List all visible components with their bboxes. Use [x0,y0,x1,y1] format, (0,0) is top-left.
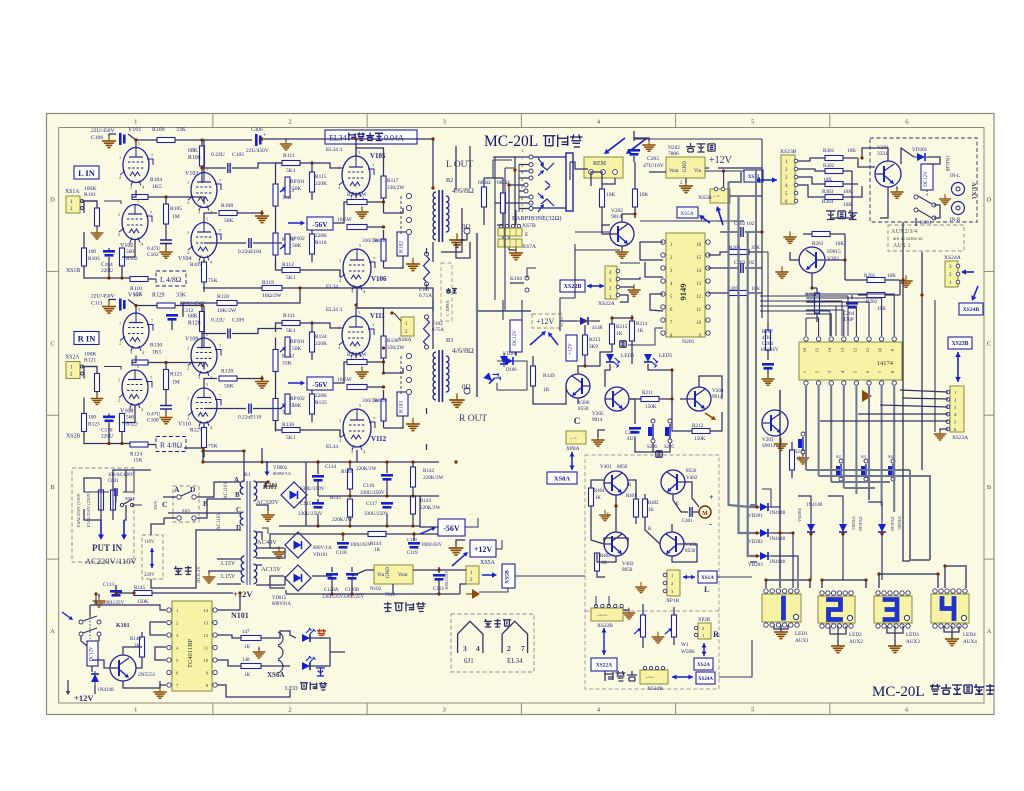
svg-text:S206: S206 [647,445,657,450]
label R IN box [74,332,99,345]
svg-text:R129: R129 [152,293,165,299]
transistor V205 9014 [592,387,629,423]
diode VD106 [500,353,517,373]
resistor R124 [130,442,156,464]
label LED bicolor [285,682,327,692]
svg-text:13: 13 [696,282,701,287]
svg-text:B3: B3 [446,337,453,344]
svg-text:R207: R207 [762,330,773,335]
ground main amp [449,540,465,555]
svg-text:10K: 10K [843,189,852,195]
svg-text:VD204: VD204 [797,508,802,522]
svg-text:2: 2 [187,200,189,205]
tube V112 EL34 [326,403,387,454]
connector XS23 right edge [744,170,763,182]
svg-text:S601: S601 [125,496,135,501]
wires V10x plate rails [104,138,204,258]
svg-text:220V: 220V [144,573,155,578]
potentiometer RP101 [280,177,305,197]
svg-text:VD101: VD101 [313,553,328,558]
svg-text:XS7A: XS7A [522,244,536,250]
svg-text:R106: R106 [188,155,201,161]
svg-text:K101: K101 [264,483,278,489]
ground input mid2 [775,266,788,278]
speaker terminals [401,353,412,396]
ground under 7806 [679,178,693,193]
svg-text:XS22B: XS22B [564,284,582,290]
tube outline 6J1 pins [458,621,483,665]
svg-text:C109: C109 [232,318,244,324]
earphone jack bracket [533,153,573,211]
capacitor C109 [202,318,282,339]
resistor R130 [132,343,162,366]
svg-text:2: 2 [187,366,189,371]
svg-text:AUX1: AUX1 [795,638,809,644]
connector XS5A arrow [677,206,723,225]
wire cathode bus [84,201,135,280]
svg-text:0Ω: 0Ω [462,383,471,391]
resistor R115 [310,163,328,200]
svg-text:R 4/8Ω: R 4/8Ω [160,441,182,450]
capacitor C601 [108,473,134,496]
resistor R116 [310,228,328,262]
svg-text:1K5: 1K5 [152,184,162,190]
ground between 10/5W [355,206,368,218]
svg-text:5: 5 [206,382,208,387]
resistor R117 [381,165,405,213]
svg-text:R142: R142 [423,468,435,474]
brown connector arrow [862,390,872,402]
svg-text:XS6A: XS6A [267,671,285,679]
svg-text:S9014: S9014 [762,443,776,449]
svg-text:LED5: LED5 [659,353,672,359]
switch S203 [861,454,868,481]
svg-text:7: 7 [521,644,525,653]
svg-text:V101: V101 [128,127,141,133]
svg-text:EL34 3: EL34 3 [326,147,342,153]
label dengsi [174,566,192,575]
jack AUX1 IN-R [950,202,965,224]
svg-text:+12V: +12V [709,155,733,166]
connector XS24A vol [696,672,715,684]
LED display digit 2 [818,591,855,628]
ground under digit 4 [945,633,959,646]
svg-text:0.04A: 0.04A [384,134,404,143]
svg-text:1: 1 [339,418,341,423]
svg-text:R121: R121 [84,358,96,364]
svg-text:5: 5 [138,307,140,312]
resistor R209 [708,286,762,296]
svg-text:7: 7 [219,394,221,399]
resistor R211 [629,390,672,410]
capacitor C205 electrolytic [628,149,664,169]
svg-text:R304: R304 [822,199,834,205]
svg-text:AUX1: AUX1 [970,182,977,199]
svg-text:5: 5 [138,142,140,147]
wire long vertical 433 R [432,299,434,349]
tube V104 6J1 [178,217,221,265]
IC 14174 bottom pins [802,370,896,385]
capacitor C120A [322,567,344,600]
svg-text:DC12V: DC12V [513,330,518,346]
svg-text:4: 4 [476,644,480,653]
svg-text:5: 5 [359,403,361,408]
resistor R210 [790,442,806,478]
svg-text:R214: R214 [636,321,648,327]
capacitor C117 [364,501,393,517]
connector XS5A bottom [466,560,496,584]
resistor R112 [276,262,301,281]
wires output stage [300,308,427,450]
svg-text:RP101: RP101 [290,339,305,345]
resistor R403 [595,553,611,571]
svg-text:1N4148: 1N4148 [944,155,949,172]
resistor R110 [130,277,156,299]
svg-text:XS2A: XS2A [697,662,710,668]
svg-text:GND: GND [683,161,688,172]
ground under R121 [91,393,104,404]
svg-text:10K: 10K [606,192,615,198]
label E mark [525,232,528,238]
svg-text:47K: 47K [762,336,771,341]
svg-text:9014: 9014 [592,417,603,423]
label K101 power [263,485,277,491]
wires power area [84,451,285,588]
resistor R107 [190,257,218,292]
svg-text:IN-R: IN-R [950,218,961,223]
arrow put-in 2 [121,520,127,540]
svg-text:8050: 8050 [622,567,633,573]
svg-text:W50K: W50K [681,649,695,655]
ground under C108 [159,412,172,424]
bus right column verticals [903,222,935,561]
label R vol [713,629,720,639]
switch S204 [888,454,895,481]
svg-text:LED: LED [285,685,298,692]
svg-text:D: D [236,524,241,532]
svg-text:R IN: R IN [78,334,97,344]
svg-text:R215: R215 [616,324,628,330]
svg-text:7: 7 [219,344,221,349]
svg-text:M: M [702,511,708,517]
fuse F101 [419,252,432,299]
double arrow XS23 [955,352,961,382]
ground mid [255,210,269,223]
svg-text:R115: R115 [315,174,327,180]
svg-text:150K: 150K [694,436,706,442]
inner frame [59,128,984,704]
svg-text:W1: W1 [681,642,689,648]
svg-text:XS24B: XS24B [963,307,980,313]
svg-text:7: 7 [373,416,375,421]
svg-text:1: 1 [339,258,341,263]
svg-text:C113: C113 [103,582,114,588]
resistor R147 [217,630,272,650]
svg-text:XS24A: XS24A [698,677,713,682]
svg-text:C: C [574,417,581,427]
svg-text:EL34: EL34 [326,444,338,450]
svg-text:R402: R402 [648,501,659,506]
capacitor C204b [843,302,858,323]
svg-text:13: 13 [203,621,208,626]
svg-text:2: 2 [187,250,189,255]
svg-text:3: 3 [351,449,353,454]
svg-text:220K: 220K [315,233,327,239]
label dengsi jiao [484,619,511,627]
svg-text:16: 16 [802,347,807,352]
svg-text:220U: 220U [101,268,113,274]
wire earphone bus [495,157,536,310]
svg-text:15: 15 [815,347,820,352]
label 300V rot [153,499,158,510]
resistor R106 [188,138,205,183]
frame column numbers top [134,119,909,126]
ground under V203 [774,438,787,450]
svg-text:D: D [987,196,992,203]
svg-text:R149: R149 [543,373,555,379]
wire cathode bus [84,367,135,446]
wire xs5b down [479,588,508,592]
svg-text:R105: R105 [170,206,182,212]
svg-text:0Ω: 0Ω [462,223,471,231]
resistor 10/5W lower [337,217,367,230]
svg-text:K103: K103 [399,401,405,413]
wires control board [570,131,762,311]
svg-text:10Ω/2W: 10Ω/2W [262,293,282,299]
ground under digit 3 [888,640,902,653]
connector XS22B ctrl [560,280,585,292]
transistor V203 S9014 [762,410,788,449]
LED5 [644,353,672,368]
svg-text:VD015: VD015 [272,596,287,601]
tube V106 EL34 [326,243,387,294]
potentiometer RP101 [280,337,305,357]
svg-text:150K: 150K [645,404,657,410]
svg-text:VD301: VD301 [912,147,928,153]
diode VD206 [878,516,902,535]
svg-text:AC110V: AC110V [217,512,222,530]
resistor R148 [217,658,272,678]
resistor R213 [583,325,601,366]
svg-text:R116: R116 [315,240,327,246]
svg-text:11: 11 [204,646,209,651]
svg-text:XS23B: XS23B [951,341,968,347]
ground XS23A [934,429,948,440]
relay DC12V mid [510,320,522,352]
capacitor C110 electrolytic [101,416,115,440]
arrow put-in 1 [98,520,104,540]
label E B C marks [607,483,679,532]
svg-text:220K/2W: 220K/2W [356,466,377,472]
svg-text:8550: 8550 [686,468,697,474]
svg-text:MC-20L: MC-20L [872,684,925,700]
resistor R138 [381,325,405,373]
svg-text:10/5W: 10/5W [352,192,368,198]
svg-text:10K: 10K [639,192,648,198]
dashed box C-XP8A [441,263,457,321]
transformer B1 core [244,472,251,585]
svg-text:7: 7 [372,163,374,168]
wire input top rail [109,134,136,140]
svg-text:2: 2 [118,398,120,403]
svg-text:50K: 50K [292,346,301,352]
svg-text:11: 11 [865,347,870,352]
svg-text:Vin: Vin [694,169,702,174]
label LED2 AUX2 [849,632,863,645]
capacitor C121 [433,567,449,592]
bus control to 14174 [762,232,948,421]
svg-text:1N4148: 1N4148 [769,511,786,516]
transistor V206 8550 [566,374,590,412]
svg-text:R203: R203 [812,241,824,247]
wires input board [790,148,940,299]
svg-text:33K: 33K [176,293,187,299]
fuse 2 [111,478,116,520]
svg-text:AUX2/3/4: AUX2/3/4 [891,228,917,235]
fuse F2AL250V label [86,492,91,527]
transistor V302 S9015 [799,247,841,273]
svg-text:4148: 4148 [592,325,603,331]
svg-text:R301: R301 [823,148,835,154]
junction dots rails [134,137,923,535]
svg-text:8550: 8550 [685,548,696,554]
wire earphone gnd stub [515,210,517,225]
ground vol mid [652,632,665,643]
svg-text:10K: 10K [843,202,852,208]
svg-text:75K: 75K [208,278,218,284]
label EARPHONE [512,215,561,229]
ground near C306 [280,139,293,150]
connector XP1B [663,570,680,604]
resistor R131 [276,313,314,334]
svg-text:15: 15 [696,256,701,261]
svg-text:1: 1 [119,155,121,160]
regulator N202 7806 [666,145,705,178]
bridge VD002b [264,482,307,508]
label 3.15V a [217,559,241,567]
svg-text:14: 14 [827,347,832,352]
tube V103 6J1 [185,167,221,215]
svg-text:R211: R211 [642,390,653,396]
frame row letters right [987,196,992,635]
svg-text:R302: R302 [823,163,835,169]
svg-text:5: 5 [359,243,361,248]
svg-text:VD203: VD203 [748,563,763,568]
svg-text:1N4148: 1N4148 [858,516,863,532]
svg-text:220K: 220K [315,181,327,187]
capacitor C104 electrolytic [101,250,115,274]
label L vol [704,584,710,594]
double arrow XS22 [587,284,604,289]
connector XP2B [694,618,711,639]
tube V101 6J1 [119,127,153,190]
svg-text:22U/450V: 22U/450V [91,294,115,300]
connector XS5B [698,187,730,203]
brown stub [466,589,480,599]
wire XS1A right [717,576,752,578]
connector XS23A right [946,386,968,441]
capacitor C203 [708,260,762,273]
resistor R302 [798,163,852,174]
IC N201 9149 [666,233,705,337]
svg-text:N102: N102 [370,587,382,592]
svg-text:2: 2 [339,278,341,283]
tube V102 6J1 [118,199,152,250]
svg-text:N101: N101 [231,611,249,620]
tube V110 6J1 [178,382,221,430]
svg-text:11: 11 [696,308,701,313]
resistor R301 [798,148,858,161]
capacitor C306 electrolytic [202,127,433,188]
transformer B1 sec 320V [254,481,280,506]
svg-text:are as same as: are as same as [893,236,923,242]
wire dc12v stubs [497,300,527,390]
svg-text:C: C [50,340,54,347]
diode VD106 [502,352,518,365]
svg-text:XS22B: XS22B [597,623,613,629]
label LED4 AUX4 [963,632,977,645]
wire R-48 to amp [184,447,203,449]
resistor R133 [273,372,294,432]
svg-text:C114: C114 [325,464,336,470]
svg-text:A: A [987,628,992,635]
frame row letters left [50,196,55,635]
diode VD202 [748,529,786,545]
svg-text:2: 2 [288,119,291,126]
resistor 10/5W lower [337,377,367,390]
resistor 10/5W upper [347,352,368,365]
svg-text:LED1: LED1 [795,631,808,637]
tube V107 6J1 [119,293,153,356]
svg-text:R126: R126 [188,321,201,327]
svg-text:5: 5 [206,217,208,222]
svg-text:R119: R119 [262,280,274,286]
ground under digit 1 [774,626,788,639]
svg-text:1N4148: 1N4148 [806,503,823,508]
svg-text:22U/450V: 22U/450V [91,128,115,134]
svg-text:R OUT: R OUT [459,414,487,424]
label 4/6/8ohm [452,346,474,355]
capacitor C113 [103,582,125,606]
input board dashed box [870,138,977,222]
svg-text:S201: S201 [182,508,191,513]
transformer B1 primary AB [224,481,244,499]
IC N201 pins left [661,240,673,339]
resistor R104 [132,177,162,200]
label L 4/8ohm dashed [156,271,186,286]
wire bus left-to-mid [172,146,512,462]
svg-text:7: 7 [151,153,153,158]
capacitor C115 [298,501,324,517]
svg-text:R125: R125 [170,372,182,378]
svg-text:C106: C106 [91,135,103,141]
svg-text:47U/16V: 47U/16V [643,163,664,169]
svg-text:B2: B2 [446,177,453,184]
transistor V403 8050 [604,532,634,573]
resistor R109 [136,127,202,143]
wires N101 area [81,605,110,694]
tube V108 6J1 [118,364,152,415]
wire rail y221 [640,169,744,221]
label VD015 [272,596,291,607]
bus wire gray 1 [729,182,758,507]
capacitor C108 [147,406,172,424]
wires volume board [591,480,699,577]
IC 14174 [799,342,902,380]
fuse F4AL250V label [76,493,81,527]
svg-text:AC110V: AC110V [224,481,229,499]
voltage select dashed [142,535,163,579]
